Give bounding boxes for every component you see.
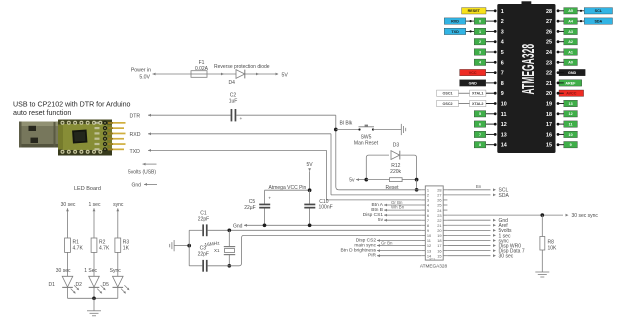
svg-text:Sync: Sync — [110, 268, 122, 274]
node 5V supply — [307, 162, 314, 171]
svg-text:A5: A5 — [568, 9, 573, 13]
wire R3 to D5 — [117, 252, 119, 276]
node sync (LED board) — [113, 202, 124, 211]
node OSC1 / XTAL1 (pin9) — [437, 90, 497, 96]
svg-text:5.0V: 5.0V — [139, 75, 150, 81]
svg-text:22µF: 22µF — [244, 205, 256, 211]
svg-text:A3: A3 — [568, 30, 573, 34]
svg-text:23: 23 — [546, 60, 552, 66]
svg-text:DTR: DTR — [130, 113, 141, 119]
IC ATMEGA328 pinout chip body — [497, 1, 555, 153]
ground (SW5) — [401, 124, 405, 135]
node digital 7 (pin13) — [474, 131, 496, 137]
node A5 / SCL (pin28) — [557, 8, 613, 14]
svg-text:C1: C1 — [200, 210, 207, 216]
svg-text:5volts (USB): 5volts (USB) — [128, 170, 156, 176]
fuse F1 0.02A — [191, 60, 209, 77]
wire pin22 to Gnd — [447, 218, 508, 224]
node digital 3 (pin5) — [474, 49, 496, 55]
wire Btn D brightness to pin13 — [341, 247, 422, 253]
node digital 11 (right) — [557, 121, 578, 127]
node digital 12 (right) — [557, 111, 578, 117]
wire 5V down to VCC rail — [309, 171, 311, 190]
svg-text:A0: A0 — [568, 61, 573, 65]
ground (LED board) — [87, 311, 101, 316]
capacitor C2 1uF — [229, 92, 243, 122]
wire Gnd rail to pin8 — [244, 224, 421, 226]
svg-text:1uF: 1uF — [229, 99, 238, 105]
resistor R2 4.7K — [91, 238, 110, 252]
wire pin18 to sync — [447, 238, 509, 244]
wire PIR to pin14 — [368, 253, 421, 259]
LED D1 (30 sec) — [49, 268, 80, 293]
svg-text:GND: GND — [568, 71, 577, 75]
svg-text:OSC1: OSC1 — [443, 92, 453, 96]
ground (R8) — [535, 272, 549, 277]
svg-text:Gnd: Gnd — [132, 182, 142, 188]
svg-text:12: 12 — [569, 112, 573, 116]
node Gnd rail label — [233, 223, 247, 229]
svg-text:A1: A1 — [568, 50, 573, 54]
svg-text:25: 25 — [546, 40, 552, 46]
svg-text:4: 4 — [501, 40, 504, 46]
svg-text:Gnd: Gnd — [233, 223, 243, 229]
node digital 13 (right) — [557, 100, 578, 106]
svg-text:28: 28 — [546, 9, 552, 15]
svg-text:IC1: IC1 — [430, 257, 436, 261]
ground GND (pin8) — [460, 80, 497, 86]
svg-text:A2: A2 — [568, 40, 573, 44]
wire Btn B to pin5 — [371, 205, 421, 213]
svg-text:10K: 10K — [548, 245, 558, 251]
svg-text:D1: D1 — [49, 282, 56, 288]
wire D3 branch loop — [366, 155, 416, 180]
svg-text:15: 15 — [437, 253, 441, 258]
node DTR — [130, 113, 141, 119]
junction crystal top — [227, 228, 231, 232]
svg-text:3: 3 — [501, 29, 504, 35]
svg-text:auto reset function: auto reset function — [13, 109, 71, 117]
svg-text:11: 11 — [569, 122, 573, 126]
ground GND (pin22) — [557, 69, 586, 75]
svg-text:RXD: RXD — [451, 19, 459, 23]
svg-text:5V: 5V — [307, 162, 314, 168]
junction R8 tap — [540, 213, 544, 217]
svg-text:Btn D brightness: Btn D brightness — [341, 247, 377, 253]
svg-text:SDA: SDA — [594, 19, 602, 23]
wire R12 down to reset line — [416, 180, 418, 190]
wire LED common rail — [68, 297, 118, 299]
node RXD / 0 (pin2) — [444, 18, 496, 24]
svg-text:30 sec: 30 sec — [61, 202, 76, 208]
LED D2 (1 Sec) — [76, 268, 106, 293]
svg-text:C2: C2 — [230, 92, 237, 98]
svg-text:Bn: Bn — [476, 184, 482, 189]
wire SW5 to ground — [373, 129, 401, 131]
wire D5 to rail — [117, 287, 119, 298]
svg-text:1 sec: 1 sec — [89, 202, 101, 208]
wire pin21 to Aref — [447, 223, 508, 229]
junction VCC/C10 — [308, 188, 312, 192]
svg-text:17: 17 — [546, 122, 552, 128]
capacitor C10 100nF — [304, 190, 332, 225]
svg-text:8: 8 — [479, 143, 481, 147]
node digital 9 (right) — [557, 142, 578, 148]
svg-text:7: 7 — [479, 133, 481, 137]
wire Reset to IC pin1 — [339, 185, 421, 191]
wire Disp CS1 to pin6 — [363, 212, 421, 218]
node 1 sec (LED board) — [89, 202, 101, 211]
wire reset node to SW5 — [336, 129, 360, 131]
power AVCC (pin20) — [557, 90, 584, 96]
diode D3 — [391, 143, 400, 160]
node analog A0 — [557, 59, 578, 65]
svg-text:TXD: TXD — [130, 149, 141, 155]
svg-text:AVCC: AVCC — [566, 92, 577, 96]
wire diode to 5V — [245, 73, 279, 76]
svg-text:OSC2: OSC2 — [443, 102, 453, 106]
wire Btn A to pin4 — [372, 200, 422, 208]
svg-text:0: 0 — [479, 19, 481, 23]
wire D1 to rail — [67, 287, 69, 298]
wire C2 to reset-node corner — [236, 114, 335, 116]
svg-text:22pF: 22pF — [198, 217, 209, 223]
LED D5 (Sync) — [103, 268, 130, 293]
junction crystal gnd — [187, 244, 191, 248]
node Gnd (module) — [132, 182, 158, 188]
svg-text:Btn A: Btn A — [372, 202, 384, 208]
svg-text:+: + — [240, 117, 243, 122]
svg-text:PIR: PIR — [368, 253, 377, 259]
node AREF (pin21) — [557, 80, 582, 86]
node 5v (reset pullup) — [349, 178, 366, 184]
svg-text:Disp CS1: Disp CS1 — [363, 212, 384, 218]
svg-text:26: 26 — [546, 29, 552, 35]
wire pin16 to Disp Data 7 — [447, 249, 524, 255]
svg-text:F1: F1 — [199, 60, 205, 66]
svg-text:9: 9 — [501, 91, 504, 97]
svg-text:30 sec: 30 sec — [499, 254, 514, 260]
svg-text:16: 16 — [546, 132, 552, 138]
wire pin19 to 1 sec — [447, 233, 511, 239]
svg-text:19: 19 — [546, 102, 552, 108]
svg-text:XTAL1: XTAL1 — [472, 92, 483, 96]
crystal X1 16MHz — [204, 230, 235, 265]
wire pin15 to 30 sec — [447, 254, 513, 260]
svg-text:ATMEGA328: ATMEGA328 — [519, 44, 538, 95]
svg-text:22pF: 22pF — [198, 252, 209, 258]
svg-text:1K: 1K — [123, 246, 130, 252]
svg-text:Gr Bn: Gr Bn — [381, 240, 393, 245]
svg-text:30 sec sync: 30 sec sync — [572, 213, 599, 219]
svg-text:18: 18 — [546, 112, 552, 118]
svg-text:1 Sec: 1 Sec — [84, 268, 97, 274]
svg-text:Bl Blk: Bl Blk — [340, 121, 353, 127]
svg-text:24: 24 — [546, 50, 552, 56]
junction C10 gnd — [308, 223, 312, 227]
svg-text:27: 27 — [546, 19, 552, 25]
svg-text:RESET: RESET — [468, 9, 481, 13]
diode D4 reverse protection — [214, 64, 270, 86]
svg-text:14: 14 — [501, 143, 507, 149]
wire power-in to fuse — [153, 73, 192, 76]
svg-text:XTAL2: XTAL2 — [472, 102, 483, 106]
junction crystal bottom — [227, 264, 231, 268]
svg-text:1: 1 — [479, 30, 481, 34]
svg-text:X1: X1 — [214, 248, 220, 253]
wire R8 bottom — [541, 250, 543, 272]
junction reset line — [415, 188, 419, 192]
svg-text:ATMEGA328: ATMEGA328 — [420, 264, 448, 269]
resistor R1 4.7K — [65, 238, 84, 252]
svg-text:5v: 5v — [349, 178, 355, 184]
wire DTR to C2 — [148, 114, 231, 117]
svg-text:VCC: VCC — [469, 71, 477, 75]
wire 5v to pin7 — [378, 217, 421, 223]
svg-text:4.7K: 4.7K — [73, 246, 84, 252]
wire sync to R3 — [117, 208, 119, 238]
svg-text:+: + — [268, 196, 271, 201]
node Power in 5.0V — [131, 68, 151, 81]
svg-text:Power in: Power in — [131, 68, 151, 74]
capacitor C1 22pF — [189, 210, 209, 236]
wire main sync to pin12 — [354, 240, 421, 248]
wire pin20 to 5volts — [447, 228, 512, 234]
node 30 sec (LED board) — [61, 202, 76, 211]
wire 1 sec to R2 — [93, 208, 95, 238]
svg-text:LED Board: LED Board — [74, 186, 101, 192]
svg-text:GND: GND — [469, 81, 478, 85]
node A4 / SDA (pin27) — [557, 18, 613, 24]
svg-text:6: 6 — [501, 60, 504, 66]
svg-text:USB to CP2102 with DTR for Ard: USB to CP2102 with DTR for Arduino — [13, 100, 131, 108]
wire R8 top — [541, 215, 543, 236]
svg-text:2: 2 — [501, 19, 504, 25]
resistor R8 10K — [540, 237, 557, 252]
wire R2 to D2 — [93, 252, 95, 276]
svg-text:7: 7 — [501, 71, 504, 77]
switch SW5 Man Reset — [354, 125, 379, 147]
svg-text:SCL: SCL — [595, 9, 603, 13]
svg-text:9: 9 — [570, 143, 572, 147]
capacitor C3 22pF — [189, 246, 209, 272]
wire Disp CS2 to pin11 — [356, 237, 421, 243]
svg-text:TXD: TXD — [451, 30, 459, 34]
svg-text:11: 11 — [501, 112, 507, 118]
svg-text:Reset: Reset — [385, 185, 399, 191]
node analog A3 — [557, 28, 578, 34]
wire pin23 to 30 sec sync — [447, 213, 598, 219]
resistor R12 220k — [366, 163, 416, 181]
svg-text:D3: D3 — [393, 143, 400, 149]
wire ground to loop — [174, 245, 189, 247]
svg-text:Man Reset: Man Reset — [354, 141, 379, 147]
svg-text:10: 10 — [569, 133, 573, 137]
svg-text:220k: 220k — [390, 169, 401, 175]
svg-text:8: 8 — [501, 81, 504, 87]
svg-text:Wh Bn: Wh Bn — [391, 205, 405, 210]
power VCC (pin7) — [460, 69, 497, 75]
svg-text:5v: 5v — [378, 217, 384, 223]
svg-text:AREF: AREF — [565, 81, 576, 85]
junction C5 gnd — [263, 223, 267, 227]
wire XTAL2 to pin10 — [208, 235, 422, 265]
svg-text:0.02A: 0.02A — [195, 66, 209, 72]
svg-text:3: 3 — [479, 50, 481, 54]
node analog A2 — [557, 39, 578, 45]
svg-text:12: 12 — [501, 122, 507, 128]
node digital 6 (pin12) — [474, 121, 496, 127]
wire rail to ground — [93, 298, 95, 311]
node title USB to CP2102 — [13, 100, 131, 117]
svg-text:100nF: 100nF — [319, 205, 333, 211]
wire pin28 to SCL — [447, 184, 508, 194]
junction D3 left — [364, 178, 368, 182]
svg-text:5V: 5V — [282, 72, 289, 78]
svg-text:20: 20 — [546, 91, 552, 97]
wire DTR vertical down to Reset line — [336, 115, 339, 190]
svg-text:6: 6 — [479, 122, 481, 126]
wire XTAL1 rail to pin9 — [208, 229, 422, 231]
node digital 10 (right) — [557, 131, 578, 137]
wire fuse to diode — [207, 73, 236, 76]
wire pin27 to SDA — [447, 193, 509, 199]
svg-text:D5: D5 — [103, 282, 110, 288]
wire TXD to IC pin3 — [148, 149, 421, 200]
node analog A1 — [557, 49, 578, 55]
node digital 5 (pin11) — [474, 111, 496, 117]
node 5volts (USB) — [128, 163, 157, 176]
svg-text:30 sec: 30 sec — [56, 268, 71, 274]
IC IC1 ATMEGA328 symbol body with pins — [420, 186, 448, 269]
svg-text:D4: D4 — [229, 80, 236, 86]
svg-text:5: 5 — [501, 50, 504, 56]
wire D2 to rail — [93, 287, 95, 298]
CP2102 module photo — [19, 120, 126, 156]
junction LED rail — [92, 296, 96, 300]
node TXD / 1 (pin3) — [444, 28, 496, 34]
svg-text:D2: D2 — [76, 282, 83, 288]
wire 30 sec to R1 — [67, 208, 69, 238]
node Atmega VCC Pin rail — [265, 185, 310, 191]
wire pin17 to Disp WR0 — [447, 243, 521, 249]
junction reset node — [334, 128, 338, 132]
node RESET (pin1 label) — [462, 8, 497, 14]
node digital 4 (pin6) — [474, 59, 496, 65]
svg-text:SDA: SDA — [499, 193, 510, 199]
svg-text:Reverse protection diode: Reverse protection diode — [214, 64, 270, 70]
resistor R3 1K — [115, 238, 130, 252]
svg-text:4.7K: 4.7K — [99, 246, 110, 252]
svg-text:RXD: RXD — [130, 132, 141, 138]
svg-text:13: 13 — [501, 132, 507, 138]
wire R1 to D1 — [67, 252, 69, 276]
svg-text:Disp CS2: Disp CS2 — [356, 237, 377, 243]
svg-text:13: 13 — [569, 102, 573, 106]
node OSC2 / XTAL2 (pin10) — [437, 100, 497, 106]
svg-text:10: 10 — [501, 102, 507, 108]
node digital 8 (pin14) — [474, 142, 496, 148]
junction D3 right — [415, 178, 419, 182]
svg-text:15: 15 — [546, 143, 552, 149]
capacitor C5 22uF — [244, 190, 271, 225]
node digital 2 (pin4) — [474, 39, 496, 45]
svg-text:5: 5 — [479, 112, 481, 116]
svg-text:1: 1 — [501, 9, 504, 15]
wire RXD to IC pin2 — [148, 132, 421, 195]
ground (crystal) — [170, 240, 174, 251]
svg-text:21: 21 — [546, 81, 552, 87]
wire crystal loop left vertical — [188, 230, 190, 265]
svg-text:22: 22 — [546, 71, 552, 77]
svg-text:2: 2 — [479, 40, 481, 44]
svg-text:sync: sync — [113, 202, 124, 208]
